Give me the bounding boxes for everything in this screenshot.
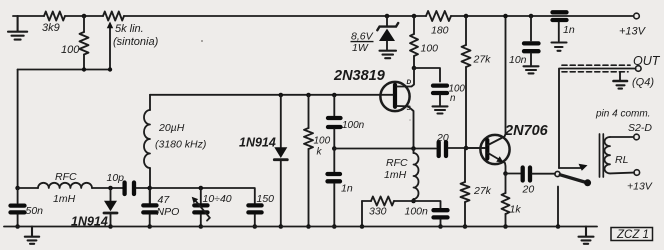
svg-text:10÷40: 10÷40 [203, 193, 232, 205]
resistor 180 [426, 11, 451, 21]
node A (3k9/100 junction) [82, 14, 87, 19]
svg-text:27k: 27k [473, 185, 492, 197]
node tank [147, 186, 152, 191]
svg-text:ZCZ 1: ZCZ 1 [616, 229, 649, 241]
terminal OUT [636, 66, 642, 72]
collector lead 2N706 [488, 16, 506, 145]
wiper of 5k pot [109, 28, 111, 70]
scan specks [201, 40, 203, 42]
node varicap [108, 186, 113, 191]
svg-text:1mH: 1mH [53, 193, 76, 205]
transistor 2N706 Q2 [480, 135, 509, 164]
svg-text:1n: 1n [563, 24, 575, 36]
svg-text:5k lin.: 5k lin. [115, 23, 144, 35]
ground (10n) [524, 66, 539, 73]
resistor 100k [306, 93, 311, 98]
svg-text:20: 20 [436, 132, 449, 144]
svg-text:D: D [407, 79, 412, 86]
svg-text:(sintonia): (sintonia) [113, 36, 159, 48]
node drain [412, 66, 417, 71]
wire source row [334, 148, 436, 150]
resistor 27k (upper bias) [464, 14, 469, 19]
svg-text:(3180 kHz): (3180 kHz) [155, 139, 206, 151]
capacitor 20 (output coupling) [523, 168, 530, 181]
capacitor 10p [125, 183, 134, 195]
svg-text:S: S [407, 105, 412, 112]
svg-text:RFC: RFC [55, 171, 77, 183]
relay coil RL with core [600, 134, 604, 177]
capacitor 20 (source-base coupling) [439, 142, 446, 156]
potentiometer 5k lin [103, 12, 124, 21]
coax shield dashes [562, 64, 630, 66]
capacitor 150 [248, 205, 261, 212]
label box ZCZ 1 [611, 228, 653, 242]
wire tank row [150, 188, 255, 203]
ground (1n) [552, 43, 567, 51]
wire pot bottom [18, 69, 110, 71]
inductor RFC 1mH (source choke) [413, 149, 415, 154]
drain lead of 2N3819 [397, 68, 414, 87]
capacitor 100n (gate coupling) [332, 93, 337, 98]
svg-text:1N914: 1N914 [71, 215, 108, 229]
svg-text:RL: RL [615, 154, 629, 166]
wire drain to bypass cap [414, 68, 440, 82]
svg-text:100n: 100n [342, 120, 365, 131]
svg-text:330: 330 [369, 206, 387, 218]
svg-text:27k: 27k [473, 54, 492, 66]
wire emitter to 20 cap [506, 173, 521, 175]
wire gate rail [150, 94, 393, 96]
svg-text:100: 100 [314, 136, 331, 147]
ground (drain bypass) [433, 106, 448, 113]
svg-text:NPO: NPO [157, 206, 180, 218]
capacitor 100n (drain bypass) [433, 86, 447, 93]
wire coax centre to OUT [559, 69, 636, 169]
ground (bottom right) [579, 227, 594, 244]
svg-text:+13V: +13V [627, 181, 653, 193]
ground top-left [8, 16, 27, 40]
inductor RFC 1mH (varicap feed) [18, 187, 38, 189]
wire top rail [13, 15, 634, 17]
svg-text:RFC: RFC [386, 157, 408, 169]
diode 1N914 (varicap) [110, 188, 112, 201]
svg-text:47: 47 [158, 194, 171, 206]
resistor 100 (divider) [83, 16, 85, 70]
svg-text:1N914: 1N914 [239, 136, 276, 150]
zener 8,6V 1W [385, 14, 390, 19]
capacitor 47 NPO [149, 188, 151, 203]
svg-text:OUT: OUT [633, 54, 661, 68]
svg-text:150: 150 [257, 193, 275, 205]
svg-text:1n: 1n [341, 183, 353, 195]
svg-text:50n: 50n [26, 205, 44, 217]
resistor 27k (lower bias) [464, 148, 466, 227]
svg-text:S2-D: S2-D [628, 122, 652, 134]
resistor 330 [362, 200, 414, 202]
junction dots on bottom rail [279, 224, 284, 229]
ground (bottom left) [25, 227, 39, 244]
emitter lead 2N706 with arrow [488, 153, 506, 174]
svg-text:1k: 1k [510, 204, 522, 216]
switch S2 [559, 167, 582, 169]
svg-text:100n: 100n [405, 206, 429, 218]
svg-text:pin 4 comm.: pin 4 comm. [595, 109, 650, 120]
svg-text:180: 180 [431, 25, 449, 37]
resistor 3k9 [44, 12, 65, 21]
svg-text:n: n [450, 93, 455, 104]
svg-text:1W: 1W [352, 42, 369, 54]
svg-text:1mH: 1mH [384, 169, 407, 181]
transistor 2N3819 Q1 (JFET) [380, 82, 409, 111]
resistor 100 (drain) [412, 14, 417, 19]
svg-text:2N3819: 2N3819 [333, 68, 385, 84]
svg-text:10n: 10n [509, 54, 527, 66]
terminal +13V (top right) [634, 13, 640, 19]
wire left vertical [17, 70, 19, 189]
wire bottom rail [4, 226, 597, 228]
resistor 1k [505, 174, 507, 227]
capacitor 100n (source network) [414, 201, 441, 208]
svg-text:100: 100 [421, 43, 439, 55]
svg-text:+13V: +13V [619, 26, 647, 38]
svg-text:8,6V: 8,6V [351, 31, 374, 43]
capacitor 1n (source divider) [333, 149, 335, 172]
diode 1N914 (gate clamp) [280, 95, 282, 147]
node source network [411, 199, 416, 204]
capacitor 1n (rail bypass at +13V) [553, 12, 567, 20]
capacitor 50n [15, 186, 20, 191]
node source divider [332, 146, 337, 151]
terminal S2-D [634, 134, 640, 140]
svg-text:100: 100 [61, 44, 80, 56]
svg-text:20: 20 [522, 184, 535, 196]
svg-text:10p: 10p [107, 172, 125, 184]
node gate/diode [279, 93, 284, 98]
ground (coax shield) [619, 72, 621, 80]
source lead of 2N3819 [397, 106, 414, 149]
svg-text:(Q4): (Q4) [632, 77, 654, 89]
svg-text:2N706: 2N706 [504, 123, 549, 139]
svg-text:20µH: 20µH [158, 122, 185, 134]
capacitor 10n (rail bypass) [529, 14, 534, 19]
inductor 20uH [149, 95, 151, 110]
svg-text:3k9: 3k9 [42, 22, 60, 34]
trimmer capacitor 10÷40 [199, 186, 204, 191]
terminal +13V (lower) [634, 170, 640, 176]
node base [464, 146, 469, 151]
